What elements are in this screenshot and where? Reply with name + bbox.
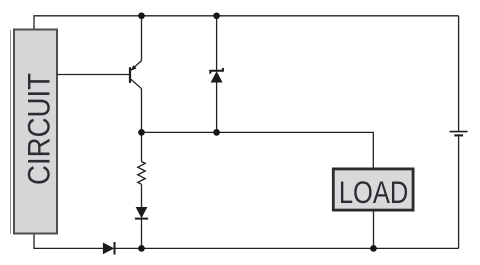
node top-right junction bbox=[213, 12, 220, 19]
wire bottom rail left bbox=[34, 235, 103, 249]
wire bottom rail right bbox=[115, 247, 459, 249]
wire base lead bbox=[57, 74, 129, 76]
svg-text:LOAD: LOAD bbox=[339, 175, 408, 210]
wire emitter up bbox=[141, 16, 143, 61]
wire diode to bottom rail bbox=[141, 219, 143, 249]
wire LOAD to bottom rail bbox=[373, 212, 375, 249]
zener diode D1 bbox=[210, 68, 223, 83]
wire zener top lead bbox=[216, 16, 218, 71]
wire resistor to diode bbox=[141, 184, 143, 207]
node bottom-right junction bbox=[370, 245, 377, 252]
svg-text:CIRCUIT: CIRCUIT bbox=[22, 73, 57, 185]
wire collector down bbox=[141, 89, 143, 162]
node bottom-left junction bbox=[138, 245, 145, 252]
diode D3 bbox=[103, 242, 115, 255]
node top-left junction bbox=[138, 12, 145, 19]
wire middle rail to LOAD bbox=[142, 132, 374, 167]
node middle-right junction bbox=[213, 129, 220, 136]
wire right side (battery bottom lead) bbox=[458, 137, 460, 249]
battery B1 bbox=[450, 132, 468, 136]
resistor R1 bbox=[138, 162, 145, 185]
node middle-left junction bbox=[138, 129, 145, 136]
CIRCUIT box bbox=[14, 30, 57, 234]
wire right side (battery top lead) bbox=[458, 16, 460, 131]
wire top rail bbox=[34, 16, 459, 29]
transistor Q1 (PNP) bbox=[130, 61, 142, 89]
wire zener bottom lead bbox=[216, 83, 218, 133]
diode D2 bbox=[135, 207, 148, 219]
LOAD box bbox=[333, 169, 413, 211]
